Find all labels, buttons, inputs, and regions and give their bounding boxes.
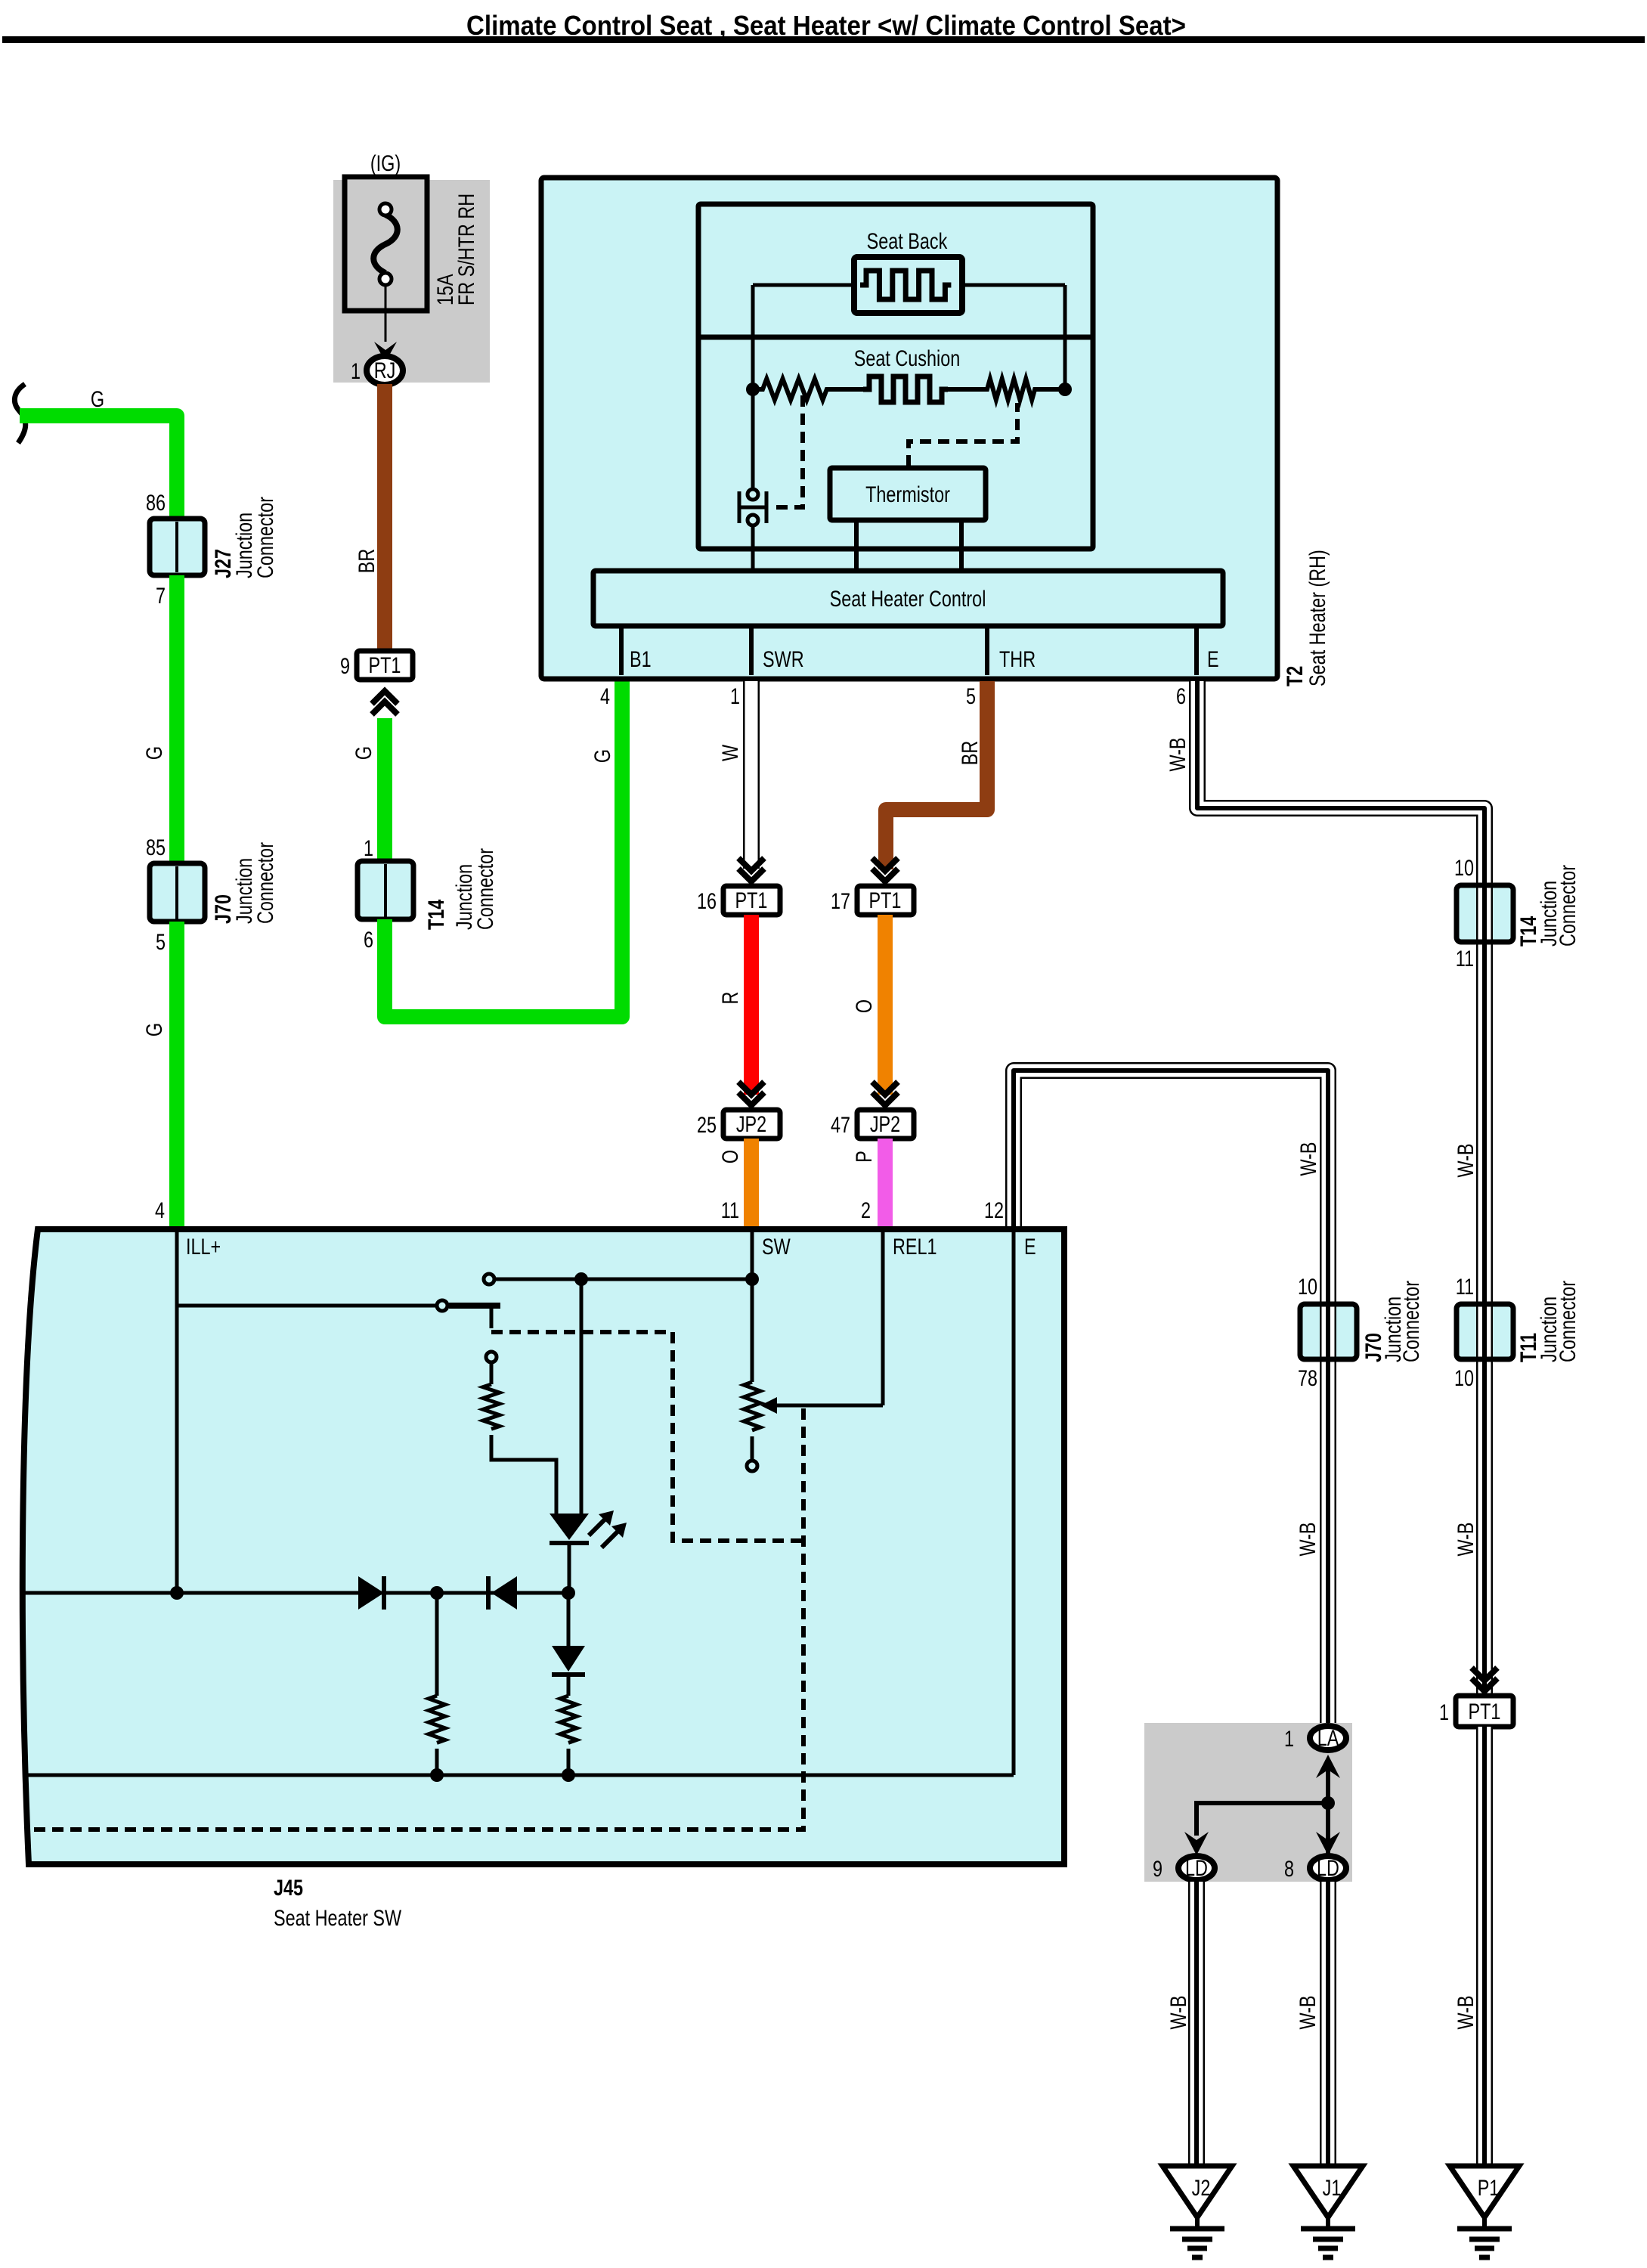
svg-text:Connector: Connector [1556, 865, 1580, 947]
svg-text:1: 1 [730, 684, 740, 709]
switch row 2 lever [177, 1300, 500, 1328]
node dot ILL+ [170, 1586, 184, 1600]
svg-text:8: 8 [1284, 1857, 1294, 1882]
junction connector T11 fill [1457, 1304, 1513, 1359]
svg-text:12: 12 [984, 1198, 1004, 1223]
svg-text:11: 11 [721, 1198, 739, 1223]
diode D2 [488, 1576, 517, 1610]
wire W-B PT1 1 to ground P1 [1476, 1727, 1493, 2166]
resistor R1 [429, 1593, 445, 1775]
wire dot to LED [580, 1279, 584, 1514]
wire BR THR to PT1 17 [886, 681, 987, 869]
wire fuse to RJ [385, 285, 387, 342]
fuse gray panel [333, 180, 490, 383]
arrow down into LD 9 [1184, 1832, 1209, 1855]
label T14 Junction Connector right [1516, 865, 1580, 947]
svg-text:ILL+: ILL+ [186, 1235, 221, 1259]
svg-text:SW: SW [762, 1235, 791, 1259]
svg-text:Seat Heater SW: Seat Heater SW [274, 1906, 402, 1931]
svg-text:1: 1 [364, 836, 373, 861]
svg-text:E: E [1207, 647, 1219, 672]
wire BR RJ to PT1 [377, 384, 392, 651]
junction connector T14 [358, 861, 413, 919]
svg-text:10: 10 [1454, 856, 1474, 881]
wire W-B T11 to PT1 1 [1476, 1299, 1493, 1696]
svg-text:PT1: PT1 [869, 888, 902, 913]
wire W-B J70 to LA [1320, 1299, 1336, 1724]
bottom wire [27, 1774, 1014, 1777]
svg-text:78: 78 [1298, 1366, 1317, 1391]
chevron into PT1 1 [1472, 1668, 1497, 1691]
T2 Seat Heater (RH) box [541, 178, 1277, 679]
Seat Heater Control box [593, 571, 1223, 626]
chevron into PT1 16 [738, 858, 764, 881]
svg-text:5: 5 [156, 930, 166, 955]
wire G T14 to T2 pin4 [385, 680, 622, 1017]
LED [550, 1510, 627, 1593]
junction connector J70 right border [1300, 1304, 1357, 1359]
junction connector T14 right border [1457, 885, 1513, 942]
node dot R2 [562, 1768, 575, 1782]
connector PT1 pin 9 [357, 651, 413, 680]
svg-text:J2: J2 [1192, 2176, 1211, 2201]
J45 Seat Heater SW box [23, 1229, 1064, 1864]
svg-text:PT1: PT1 [369, 653, 401, 678]
seat back heater element [854, 257, 962, 313]
diode row [23, 1591, 574, 1595]
svg-text:Connector: Connector [1399, 1281, 1424, 1362]
svg-text:9: 9 [1153, 1857, 1162, 1882]
svg-text:25: 25 [697, 1113, 717, 1138]
node dot [1321, 1796, 1335, 1810]
wire G J27 to J70 [169, 575, 184, 863]
svg-text:LA: LA [1317, 1726, 1339, 1751]
wire O PT1 17 to JP2 47 [878, 915, 893, 1095]
switch row 1 [484, 1272, 759, 1286]
svg-text:W-B: W-B [1296, 1142, 1321, 1176]
connector JP2 pin 47 [857, 1110, 914, 1139]
label T11 Junction Connector [1516, 1281, 1580, 1362]
wire switch to control [751, 525, 755, 571]
svg-text:10: 10 [1298, 1275, 1317, 1300]
fuse FR S/HTR RH box [345, 177, 427, 311]
svg-text:4: 4 [600, 684, 610, 709]
svg-text:W-B: W-B [1454, 1522, 1478, 1556]
svg-text:P: P [852, 1151, 877, 1163]
E divider [1012, 1229, 1016, 1775]
wire P JP2 47 to J45 REL1 [878, 1139, 893, 1226]
svg-text:1: 1 [1284, 1727, 1294, 1752]
wire G to J27 [20, 416, 177, 519]
junction connector T14 right fill [1457, 885, 1513, 942]
svg-text:Seat Heater Control: Seat Heater Control [830, 587, 986, 612]
svg-text:W: W [718, 744, 743, 761]
pin THR [985, 626, 989, 675]
ILL+ divider [175, 1229, 179, 1593]
arrow down into LD 8 [1316, 1832, 1340, 1855]
junction connector J27 [150, 519, 205, 575]
svg-text:7: 7 [156, 584, 166, 609]
pin B1 [619, 626, 624, 675]
wire W-B T14 to T11 [1476, 880, 1493, 1309]
diode D3 [552, 1593, 585, 1675]
svg-text:4: 4 [155, 1198, 165, 1223]
wire R PT1 16 to JP2 25 [744, 915, 759, 1095]
wire LA to dot [1326, 1770, 1330, 1854]
junction connector T11 border [1457, 1304, 1513, 1359]
dashed link left resistor to switch [771, 395, 803, 507]
pin E [1194, 626, 1199, 675]
svg-text:W-B: W-B [1296, 1995, 1320, 2029]
svg-text:B1: B1 [630, 647, 652, 672]
junction connector J70 [150, 863, 205, 922]
label J70 Junction Connector [211, 842, 278, 924]
svg-text:11: 11 [1456, 947, 1474, 971]
pin SWR [749, 626, 754, 675]
harness break squiggle [14, 384, 25, 443]
svg-text:47: 47 [831, 1113, 850, 1138]
svg-text:JP2: JP2 [870, 1112, 900, 1137]
connector PT1 pin 16 [723, 886, 780, 915]
svg-text:W-B: W-B [1166, 1995, 1191, 2029]
svg-text:P1: P1 [1478, 2176, 1500, 2201]
label T2 Seat Heater (RH) [1283, 550, 1330, 686]
svg-text:BR: BR [354, 549, 379, 574]
wire left branch down [751, 285, 755, 386]
potentiometer [744, 1382, 760, 1471]
seat cushion heater element [863, 376, 948, 402]
svg-text:J45: J45 [274, 1876, 303, 1901]
svg-text:(IG): (IG) [370, 151, 401, 176]
wiper arrow [760, 1397, 883, 1414]
wire W-B LD 8 to ground J1 [1320, 1882, 1336, 2166]
svg-text:REL1: REL1 [893, 1235, 937, 1259]
connector PT1 pin 17 [857, 886, 914, 915]
dashed wiper line [29, 1408, 803, 1830]
resistor R2 [560, 1675, 577, 1775]
svg-text:RJ: RJ [374, 358, 396, 383]
inner heater box [698, 204, 1093, 549]
wire G J70 to J45 ILL+ [169, 922, 184, 1226]
dashed link right resistor to thermistor [909, 403, 1017, 466]
node dot R1 [430, 1768, 444, 1782]
svg-text:6: 6 [364, 928, 373, 953]
label J27 Junction Connector [211, 497, 278, 578]
svg-text:Seat Heater (RH): Seat Heater (RH) [1305, 550, 1330, 686]
ground J2 [1162, 2166, 1232, 2257]
svg-text:T2: T2 [1283, 666, 1308, 686]
wire G PT1 to T14 [377, 718, 392, 861]
wire dot to LD 9 [1197, 1803, 1328, 1836]
label T14 Junction Connector [424, 848, 498, 930]
wire W-B T2 E to T14 junction connector [1197, 681, 1484, 885]
fuse element symbol [373, 215, 398, 273]
svg-text:16: 16 [697, 889, 717, 914]
node dot D1-D2 [430, 1586, 444, 1600]
svg-text:W-B: W-B [1296, 1522, 1320, 1556]
svg-text:6: 6 [1176, 684, 1186, 709]
SW divider [751, 1229, 754, 1382]
svg-text:O: O [852, 999, 877, 1013]
svg-text:2: 2 [861, 1198, 871, 1223]
connector LA pin 1 [1310, 1726, 1346, 1750]
svg-text:W-B: W-B [1454, 1143, 1478, 1177]
svg-text:1: 1 [1439, 1700, 1449, 1725]
connector PT1 pin 1 [1456, 1696, 1513, 1727]
node dot LED leg [562, 1586, 575, 1600]
junction connector J70 right fill [1300, 1304, 1357, 1359]
resistor right (seat cushion) [948, 379, 1065, 400]
wire W-B LD 9 to ground J2 [1188, 1882, 1205, 2166]
connector LD pin 9 [1178, 1856, 1215, 1880]
svg-text:Seat Back: Seat Back [867, 229, 948, 254]
svg-text:Connector: Connector [253, 497, 278, 578]
svg-text:PT1: PT1 [735, 888, 768, 913]
node dot left [746, 383, 760, 396]
label J70 Junction Connector right [1361, 1281, 1424, 1362]
dashed switch linkage [491, 1332, 803, 1541]
thermistor legs [856, 520, 961, 571]
REL1 divider [881, 1229, 885, 1405]
svg-text:LD: LD [1185, 1856, 1208, 1881]
node dot right [1058, 383, 1072, 396]
ground P1 [1450, 2166, 1519, 2257]
svg-text:T14: T14 [424, 899, 449, 930]
wire to seat back element [753, 283, 1065, 287]
chevron into JP2 47 [872, 1082, 898, 1105]
connector JP2 pin 25 [723, 1110, 780, 1139]
svg-text:10: 10 [1454, 1366, 1474, 1391]
svg-text:W-B: W-B [1166, 737, 1190, 771]
svg-text:R: R [718, 992, 743, 1005]
svg-text:SWR: SWR [763, 647, 804, 672]
chevron into JP2 25 [738, 1082, 764, 1105]
svg-text:9: 9 [340, 654, 350, 679]
wire dot to switch [751, 395, 755, 488]
title rule [2, 36, 1645, 43]
connector RJ [367, 356, 403, 385]
chevron into PT1 17 [872, 858, 898, 881]
svg-text:Climate Control Seat , Seat He: Climate Control Seat , Seat Heater <w/ C… [466, 10, 1186, 41]
connector LD pin 8 [1310, 1856, 1346, 1880]
resistor (illumination) [483, 1352, 556, 1514]
svg-text:THR: THR [999, 647, 1036, 672]
svg-text:11: 11 [1456, 1275, 1474, 1300]
svg-text:Connector: Connector [473, 848, 498, 930]
diode D1 [358, 1576, 384, 1610]
ground J1 [1293, 2166, 1363, 2257]
svg-text:G: G [590, 749, 615, 763]
chevron up below PT1 [372, 691, 398, 714]
svg-text:G: G [91, 387, 104, 412]
svg-text:W-B: W-B [1454, 1995, 1478, 2029]
arrow up into LA [1316, 1755, 1340, 1778]
svg-text:85: 85 [146, 835, 166, 860]
svg-text:86: 86 [146, 491, 166, 516]
svg-text:PT1: PT1 [1469, 1699, 1501, 1724]
svg-text:G: G [351, 746, 376, 760]
thermistor box [830, 468, 986, 520]
svg-text:G: G [142, 746, 167, 760]
svg-text:E: E [1024, 1235, 1036, 1259]
wire W-B J45 E to J70 junction connector [1014, 1070, 1328, 1304]
svg-text:5: 5 [966, 684, 976, 709]
arrow into RJ [374, 342, 397, 362]
svg-text:Thermistor: Thermistor [865, 482, 950, 507]
svg-text:O: O [718, 1150, 743, 1163]
wire O JP2 25 to J45 SW [744, 1139, 759, 1226]
svg-text:Seat Cushion: Seat Cushion [854, 346, 961, 371]
svg-text:LD: LD [1317, 1856, 1339, 1881]
svg-text:1: 1 [351, 359, 361, 384]
svg-text:17: 17 [831, 889, 850, 914]
wire W SWR to PT1 16 [743, 681, 760, 869]
gray panel LA/LD [1144, 1723, 1352, 1882]
svg-text:JP2: JP2 [736, 1112, 766, 1137]
svg-text:FR S/HTR RH: FR S/HTR RH [454, 194, 479, 305]
svg-text:BR: BR [958, 741, 983, 766]
svg-text:Connector: Connector [253, 842, 278, 924]
thermostat switch [739, 489, 766, 525]
svg-text:Connector: Connector [1556, 1281, 1580, 1362]
svg-text:G: G [142, 1023, 167, 1036]
resistor left (seat cushion) [753, 379, 863, 400]
divider seat back / seat cushion [698, 335, 1093, 340]
wire right branch down [1063, 285, 1067, 386]
svg-text:J1: J1 [1323, 2176, 1342, 2201]
